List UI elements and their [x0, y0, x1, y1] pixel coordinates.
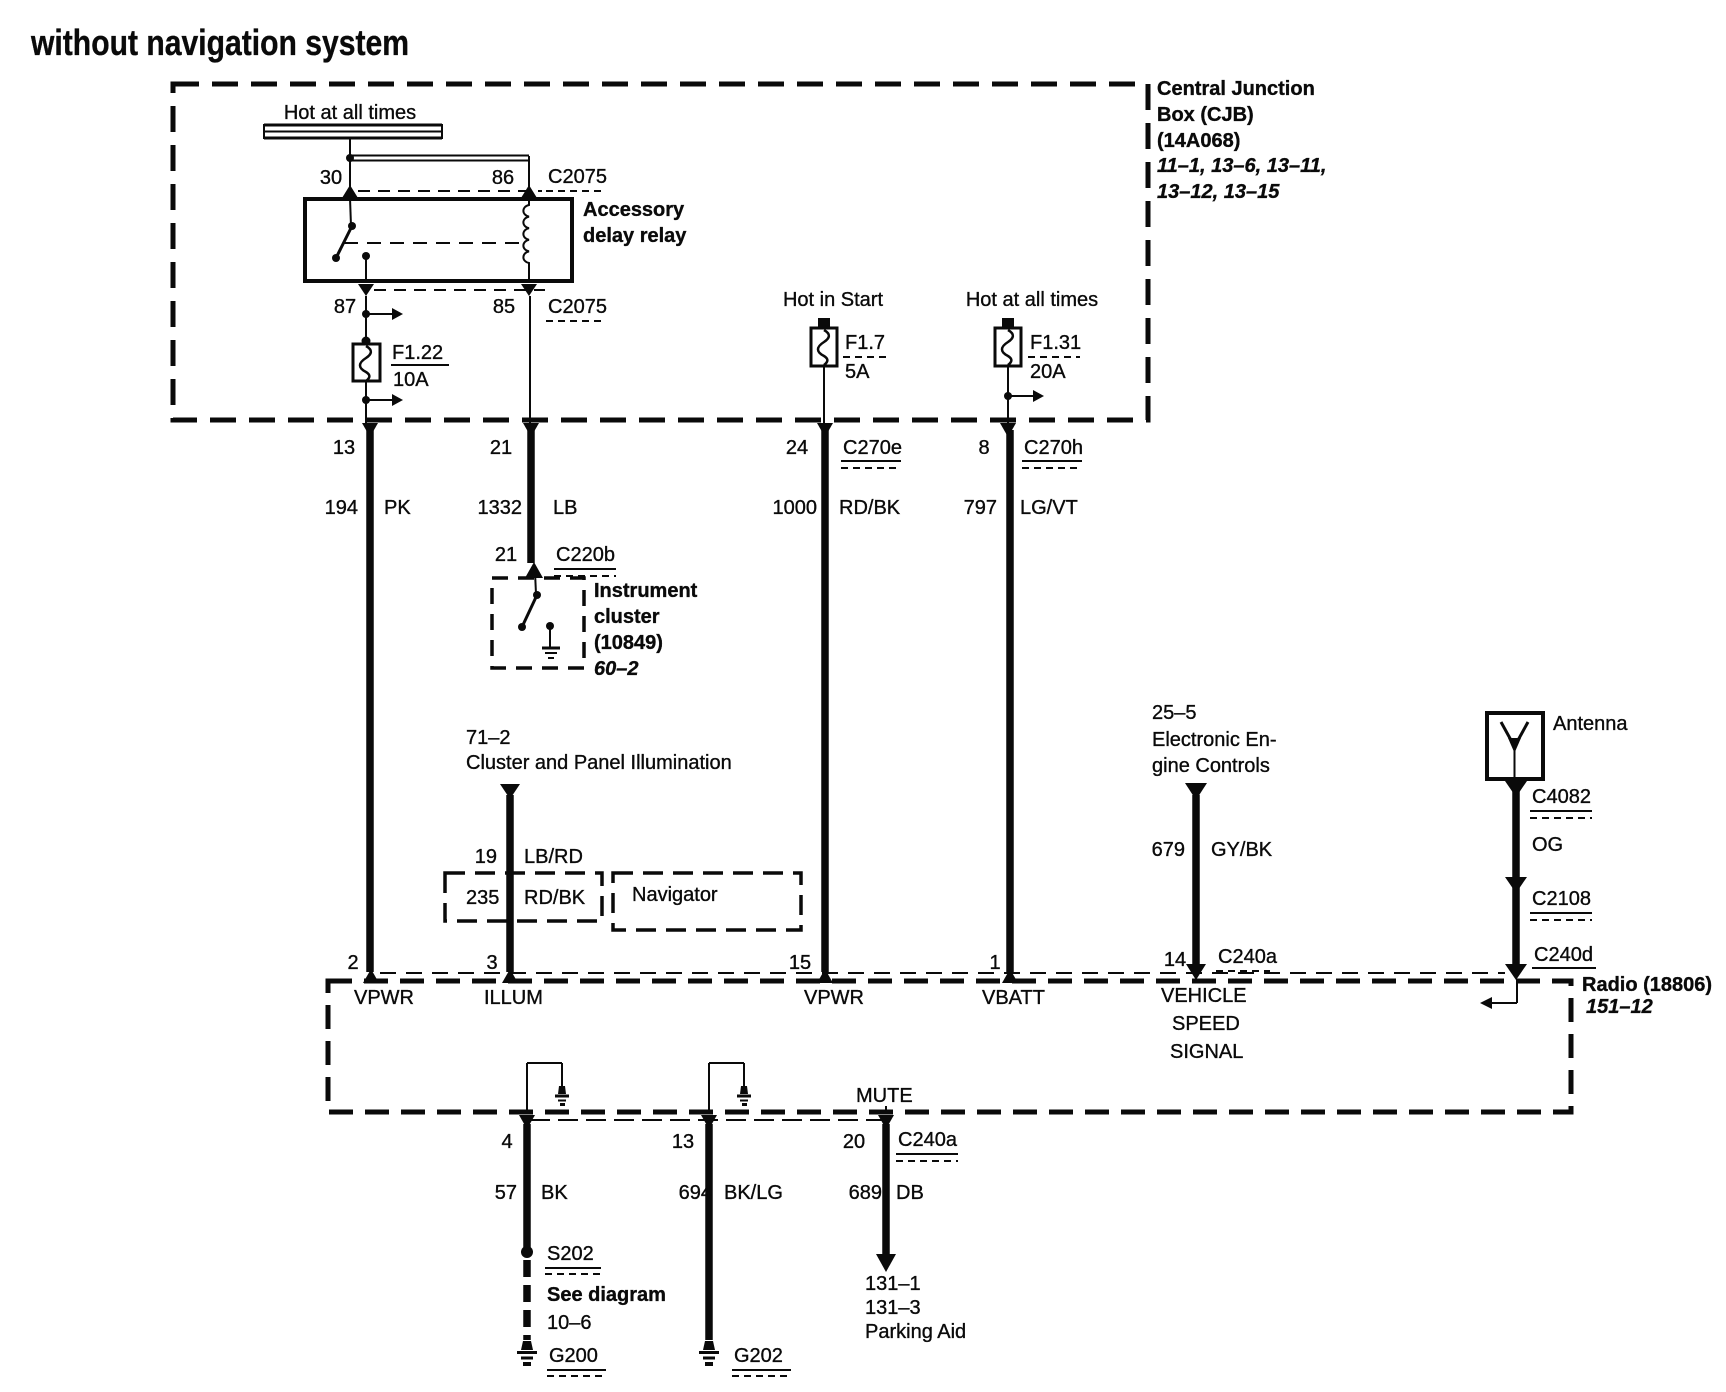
svg-text:See diagram: See diagram — [547, 1284, 666, 1306]
svg-text:C2075: C2075 — [548, 296, 607, 318]
svg-text:C4082: C4082 — [1532, 786, 1591, 808]
svg-text:C240a: C240a — [898, 1129, 958, 1151]
svg-text:2: 2 — [347, 952, 358, 974]
svg-text:13: 13 — [333, 437, 355, 459]
svg-text:Central Junction: Central Junction — [1157, 78, 1315, 100]
svg-text:689: 689 — [849, 1182, 882, 1204]
svg-text:131–3: 131–3 — [865, 1297, 921, 1319]
svg-text:PK: PK — [384, 497, 411, 519]
svg-text:13–12, 13–15: 13–12, 13–15 — [1157, 181, 1280, 203]
svg-text:11–1, 13–6, 13–11,: 11–1, 13–6, 13–11, — [1157, 155, 1326, 177]
svg-text:G202: G202 — [734, 1345, 783, 1367]
svg-text:G200: G200 — [549, 1345, 598, 1367]
svg-text:Instrument: Instrument — [594, 580, 698, 602]
svg-text:694: 694 — [679, 1182, 712, 1204]
svg-text:797: 797 — [964, 497, 997, 519]
svg-text:86: 86 — [492, 167, 514, 189]
svg-text:60–2: 60–2 — [594, 658, 639, 680]
svg-text:C240d: C240d — [1534, 944, 1593, 966]
svg-text:RD/BK: RD/BK — [524, 887, 586, 909]
svg-text:gine Controls: gine Controls — [1152, 755, 1270, 777]
svg-text:85: 85 — [493, 296, 515, 318]
svg-text:LG/VT: LG/VT — [1020, 497, 1078, 519]
svg-text:F1.22: F1.22 — [392, 342, 443, 364]
svg-text:Antenna: Antenna — [1553, 713, 1628, 735]
svg-text:20A: 20A — [1030, 361, 1066, 383]
svg-text:235: 235 — [466, 887, 499, 909]
svg-text:8: 8 — [978, 437, 989, 459]
svg-text:C2075: C2075 — [548, 166, 607, 188]
svg-text:Box (CJB): Box (CJB) — [1157, 104, 1254, 126]
svg-text:C220b: C220b — [556, 544, 615, 566]
svg-text:10–6: 10–6 — [547, 1312, 592, 1334]
svg-text:19: 19 — [475, 846, 497, 868]
svg-text:Electronic En-: Electronic En- — [1152, 729, 1277, 751]
svg-text:14: 14 — [1164, 949, 1186, 971]
svg-text:GY/BK: GY/BK — [1211, 839, 1273, 861]
svg-text:VEHICLE: VEHICLE — [1161, 985, 1247, 1007]
svg-text:679: 679 — [1152, 839, 1185, 861]
svg-text:SIGNAL: SIGNAL — [1170, 1041, 1243, 1063]
svg-text:BK: BK — [541, 1182, 568, 1204]
svg-text:Hot in Start: Hot in Start — [783, 289, 883, 311]
svg-text:5A: 5A — [845, 361, 870, 383]
svg-text:Cluster and Panel Illumination: Cluster and Panel Illumination — [466, 752, 732, 774]
svg-text:131–1: 131–1 — [865, 1273, 921, 1295]
svg-text:Accessory: Accessory — [583, 199, 685, 221]
svg-text:Parking Aid: Parking Aid — [865, 1321, 966, 1343]
svg-text:RD/BK: RD/BK — [839, 497, 901, 519]
svg-text:10A: 10A — [393, 369, 429, 391]
svg-text:1332: 1332 — [478, 497, 523, 519]
svg-text:cluster: cluster — [594, 606, 660, 628]
svg-text:57: 57 — [495, 1182, 517, 1204]
svg-text:71–2: 71–2 — [466, 727, 511, 749]
svg-text:C270h: C270h — [1024, 437, 1083, 459]
svg-text:ILLUM: ILLUM — [484, 987, 543, 1009]
svg-text:VBATT: VBATT — [982, 987, 1045, 1009]
svg-text:LB: LB — [553, 497, 577, 519]
svg-text:C270e: C270e — [843, 437, 902, 459]
svg-text:15: 15 — [789, 952, 811, 974]
svg-text:delay relay: delay relay — [583, 225, 687, 247]
svg-text:Hot at all times: Hot at all times — [966, 289, 1098, 311]
svg-text:OG: OG — [1532, 834, 1563, 856]
svg-text:Radio (18806): Radio (18806) — [1582, 974, 1712, 996]
svg-text:87: 87 — [334, 296, 356, 318]
svg-text:C2108: C2108 — [1532, 888, 1591, 910]
svg-text:(10849): (10849) — [594, 632, 663, 654]
svg-text:3: 3 — [486, 952, 497, 974]
svg-text:C240a: C240a — [1218, 946, 1278, 968]
svg-text:Hot at all times: Hot at all times — [284, 102, 416, 124]
svg-text:21: 21 — [490, 437, 512, 459]
svg-text:151–12: 151–12 — [1586, 996, 1653, 1018]
svg-text:without navigation system: without navigation system — [30, 22, 409, 63]
svg-text:20: 20 — [843, 1131, 865, 1153]
svg-text:194: 194 — [325, 497, 358, 519]
svg-text:30: 30 — [320, 167, 342, 189]
svg-text:25–5: 25–5 — [1152, 702, 1197, 724]
svg-text:SPEED: SPEED — [1172, 1013, 1240, 1035]
svg-text:21: 21 — [495, 544, 517, 566]
svg-text:VPWR: VPWR — [804, 987, 864, 1009]
svg-text:F1.31: F1.31 — [1030, 332, 1081, 354]
svg-text:MUTE: MUTE — [856, 1085, 913, 1107]
svg-text:Navigator: Navigator — [632, 884, 718, 906]
svg-text:LB/RD: LB/RD — [524, 846, 583, 868]
svg-text:1000: 1000 — [773, 497, 818, 519]
svg-text:S202: S202 — [547, 1243, 594, 1265]
svg-text:24: 24 — [786, 437, 808, 459]
svg-text:BK/LG: BK/LG — [724, 1182, 783, 1204]
svg-text:4: 4 — [501, 1131, 512, 1153]
svg-text:F1.7: F1.7 — [845, 332, 885, 354]
svg-text:1: 1 — [989, 952, 1000, 974]
svg-text:(14A068): (14A068) — [1157, 130, 1240, 152]
svg-text:13: 13 — [672, 1131, 694, 1153]
svg-text:VPWR: VPWR — [354, 987, 414, 1009]
svg-text:DB: DB — [896, 1182, 924, 1204]
